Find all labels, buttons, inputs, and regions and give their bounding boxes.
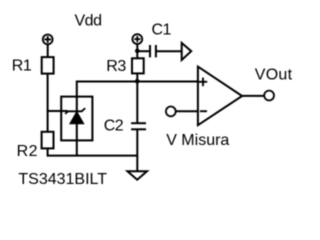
svg-text:V Misura: V Misura (166, 132, 229, 149)
power symbol Vdd1 (43, 35, 53, 45)
resistor R1 (42, 57, 54, 74)
wire branch to C1 (137, 50, 150, 52)
zener diode bar inside U1 (65, 108, 85, 114)
wire TS3431 cathode to main node (77, 82, 138, 156)
svg-text:TS3431BILT: TS3431BILT (18, 171, 107, 188)
wire C1 to port arrow (156, 50, 182, 52)
shunt reference U1 TS3431BILT box (61, 97, 92, 141)
wire Vdd1 to R1 (47, 44, 49, 57)
zener diode triangle inside U1 (70, 112, 83, 124)
port arrow (off-page connector) (182, 43, 192, 60)
wire R3 to main node (136, 73, 138, 81)
wire node to C2 and ground (136, 82, 138, 124)
capacitor C2 plates (131, 122, 146, 124)
power symbol Vdd2 (132, 34, 142, 44)
wire V Misura to op-amp - input (176, 110, 198, 112)
wire op-amp output (242, 95, 264, 97)
svg-text:R3: R3 (106, 58, 126, 75)
junction dot node R3/C2/op-amp (135, 79, 140, 84)
terminal VOut (264, 91, 274, 101)
svg-text:R1: R1 (12, 58, 32, 75)
wire R1 to R2 (47, 74, 49, 132)
op-amp + marker (199, 78, 207, 87)
terminal V Misura (166, 107, 176, 117)
wire R2 to ground rail (48, 148, 138, 156)
ground (127, 171, 147, 180)
op-amp U2 (198, 67, 242, 126)
wire main node to op-amp + input (137, 81, 198, 83)
svg-text:C2: C2 (104, 118, 124, 135)
svg-text:C1: C1 (152, 21, 172, 38)
resistor R2 (42, 132, 54, 149)
wire C2 to ground (136, 129, 138, 171)
wire node REF to TS3431 (47, 110, 68, 112)
op-amp - marker (200, 110, 207, 112)
capacitor C1 plates (149, 45, 151, 57)
junction dot node Vdd2/C1/R3 (135, 49, 140, 54)
wire Vdd2 to R3 (136, 44, 138, 58)
resistor R3 (132, 58, 144, 73)
svg-text:Vdd: Vdd (75, 13, 102, 30)
svg-text:VOut: VOut (255, 67, 293, 84)
svg-text:R2: R2 (17, 143, 38, 160)
